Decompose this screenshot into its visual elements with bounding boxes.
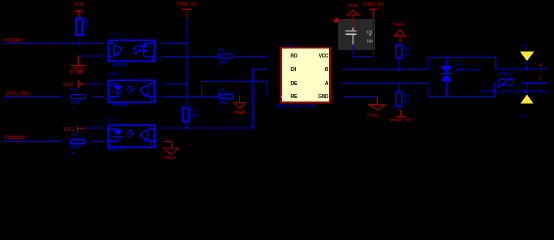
svg-text:R6: R6 [71,132,78,137]
pin number mark R8 [72,107,74,108]
wire VDD to opto3 anode [86,128,105,129]
wire RE line horizontal [201,81,268,82]
svg-text:D5: D5 [521,43,527,48]
wire opto1 anode to rail [161,43,188,44]
svg-text:GND: GND [318,94,329,100]
wire R16 to V485 port [398,106,399,111]
power arrow marker [333,17,340,22]
svg-text:100R: 100R [189,113,198,118]
power V485_5V (down) [400,110,401,116]
wire riser to RE line [201,81,202,97]
pin number mark R5 [218,107,220,108]
svg-text:RE: RE [291,94,299,100]
pin number mark R4 [218,66,220,67]
capacitor C6 [345,30,356,31]
ground GND (row1) [78,56,79,66]
junction rail/opto1 anode [186,43,188,45]
wire TXD485 [4,141,62,142]
wire VCC horizontal [352,56,374,57]
svg-text:R8: R8 [71,87,78,92]
svg-text:R11: R11 [403,46,411,51]
resistor R7 [183,108,189,122]
svg-text:SMBJ6.5CA: SMBJ6.5CA [455,67,481,72]
wire CTRL485 [4,96,62,97]
wire DI vertical [252,69,253,128]
ground GND (chip) [369,97,386,110]
junction R3/RXD485 [77,42,79,44]
svg-text:100R: 100R [71,100,81,105]
svg-text:B: B [325,67,329,73]
svg-text:100R: 100R [219,100,229,105]
wire D4 bottom stem [446,81,447,97]
svg-text:VDD: VDD [74,3,85,9]
wire A up elbow [494,82,495,97]
wire chip A [342,83,429,84]
wire B riser [427,57,428,70]
svg-text:Oc3: Oc3 [107,118,114,123]
wire A to R16 [398,84,399,93]
svg-text:100R: 100R [219,59,229,64]
svg-text:C6: C6 [367,30,373,35]
resistor R16 [396,92,402,105]
svg-text:U5: U5 [287,42,293,47]
wire A bottom rail [427,96,495,97]
wire opto1 emitter [78,56,104,57]
TVS diode D4 [440,66,452,72]
wire R4 to chip RO [234,56,267,57]
svg-text:100R: 100R [70,145,80,150]
junction emitter/riser [201,95,203,97]
wire R6 to opto3 cathode [92,141,104,142]
wire B top rail [427,57,496,58]
wire A drop [427,84,428,98]
wire RXD485 [4,43,104,44]
wire A right [521,83,548,84]
junction R7/DI line [186,127,188,129]
ground GND (row3, elbow) [163,142,178,155]
svg-text:SMBJ6.5CA SMBJ6.5CA: SMBJ6.5CA SMBJ6.5CA [480,89,548,94]
wire R11 top [398,43,399,45]
svg-text:GND: GND [70,70,86,76]
svg-text:6N137: 6N137 [111,102,129,107]
wire R8 to opto2 cathode [92,96,104,97]
wire RE drop [267,81,268,97]
wire DI line to opto3 collector [161,128,253,129]
wire chip GND [344,96,378,97]
wire opto2 emitter [161,96,218,97]
svg-text:D4: D4 [456,62,462,67]
junction A/R16 [398,82,400,84]
resistor R3 [76,19,82,36]
svg-text:R16: R16 [403,93,411,98]
wire DI stub [252,69,267,70]
svg-text:RO: RO [291,54,298,60]
svg-text:V485_5V: V485_5V [390,118,412,123]
svg-text:V485_5V: V485_5V [363,2,385,8]
wire R3 to RXD485 [78,41,79,44]
gray mark [369,34,371,36]
svg-text:R5: R5 [219,88,226,93]
wire V485 to VCC [373,18,374,57]
junction D4/B rail [445,57,447,59]
svg-text:SN75LBC184: SN75LBC184 [278,104,315,109]
wire opto2 collector to rail [161,84,187,85]
svg-text:10K: 10K [403,99,410,104]
wire V485 rail vertical [186,18,187,108]
wire B right [495,68,547,69]
wire R11 to B [398,58,399,70]
svg-text:10K: 10K [403,51,410,56]
pin number mark R3 [82,35,84,36]
diode D6 (yellow) [521,95,534,104]
svg-text:10K: 10K [83,24,89,29]
svg-text:CH45: CH45 [347,3,358,8]
wire opto3 emitter [161,141,165,142]
wire B drop [495,57,496,69]
svg-text:GND: GND [367,112,379,117]
svg-text:V485_5V: V485_5V [176,2,198,8]
wire cap to VCC [352,44,353,56]
wire D4 top stem [446,57,447,66]
gray region [338,19,375,50]
svg-text:GND: GND [164,155,178,160]
wire VDD to opto2 anode [85,84,104,85]
wire chip B [342,69,429,70]
svg-text:CH45: CH45 [393,22,406,27]
svg-text:Oc1: Oc1 [111,32,119,37]
wire opto1 cathode to R4 [161,56,218,57]
resistor R11 [396,45,402,58]
junction rail/opto2 collector [186,83,188,85]
svg-text:DI: DI [291,67,297,73]
svg-text:D6: D6 [521,114,527,119]
wire R7 to DI line [186,122,187,129]
svg-text:R4: R4 [219,47,226,52]
junction R11/B [398,68,400,70]
svg-text:TXD485: TXD485 [4,136,25,142]
svg-text:6N137: 6N137 [112,62,130,67]
svg-text:6N137: 6N137 [108,146,127,151]
svg-text:DE: DE [291,81,299,87]
svg-text:PTC1: PTC1 [500,71,514,76]
selection marks chip value [276,105,278,107]
svg-text:A: A [325,81,329,87]
pin number mark [72,152,75,154]
svg-text:Oc2: Oc2 [110,72,118,77]
svg-text:VCC: VCC [319,54,329,60]
svg-text:GND: GND [234,110,247,115]
pin RE bubble [282,95,285,98]
ground GND (row2) [234,96,246,109]
